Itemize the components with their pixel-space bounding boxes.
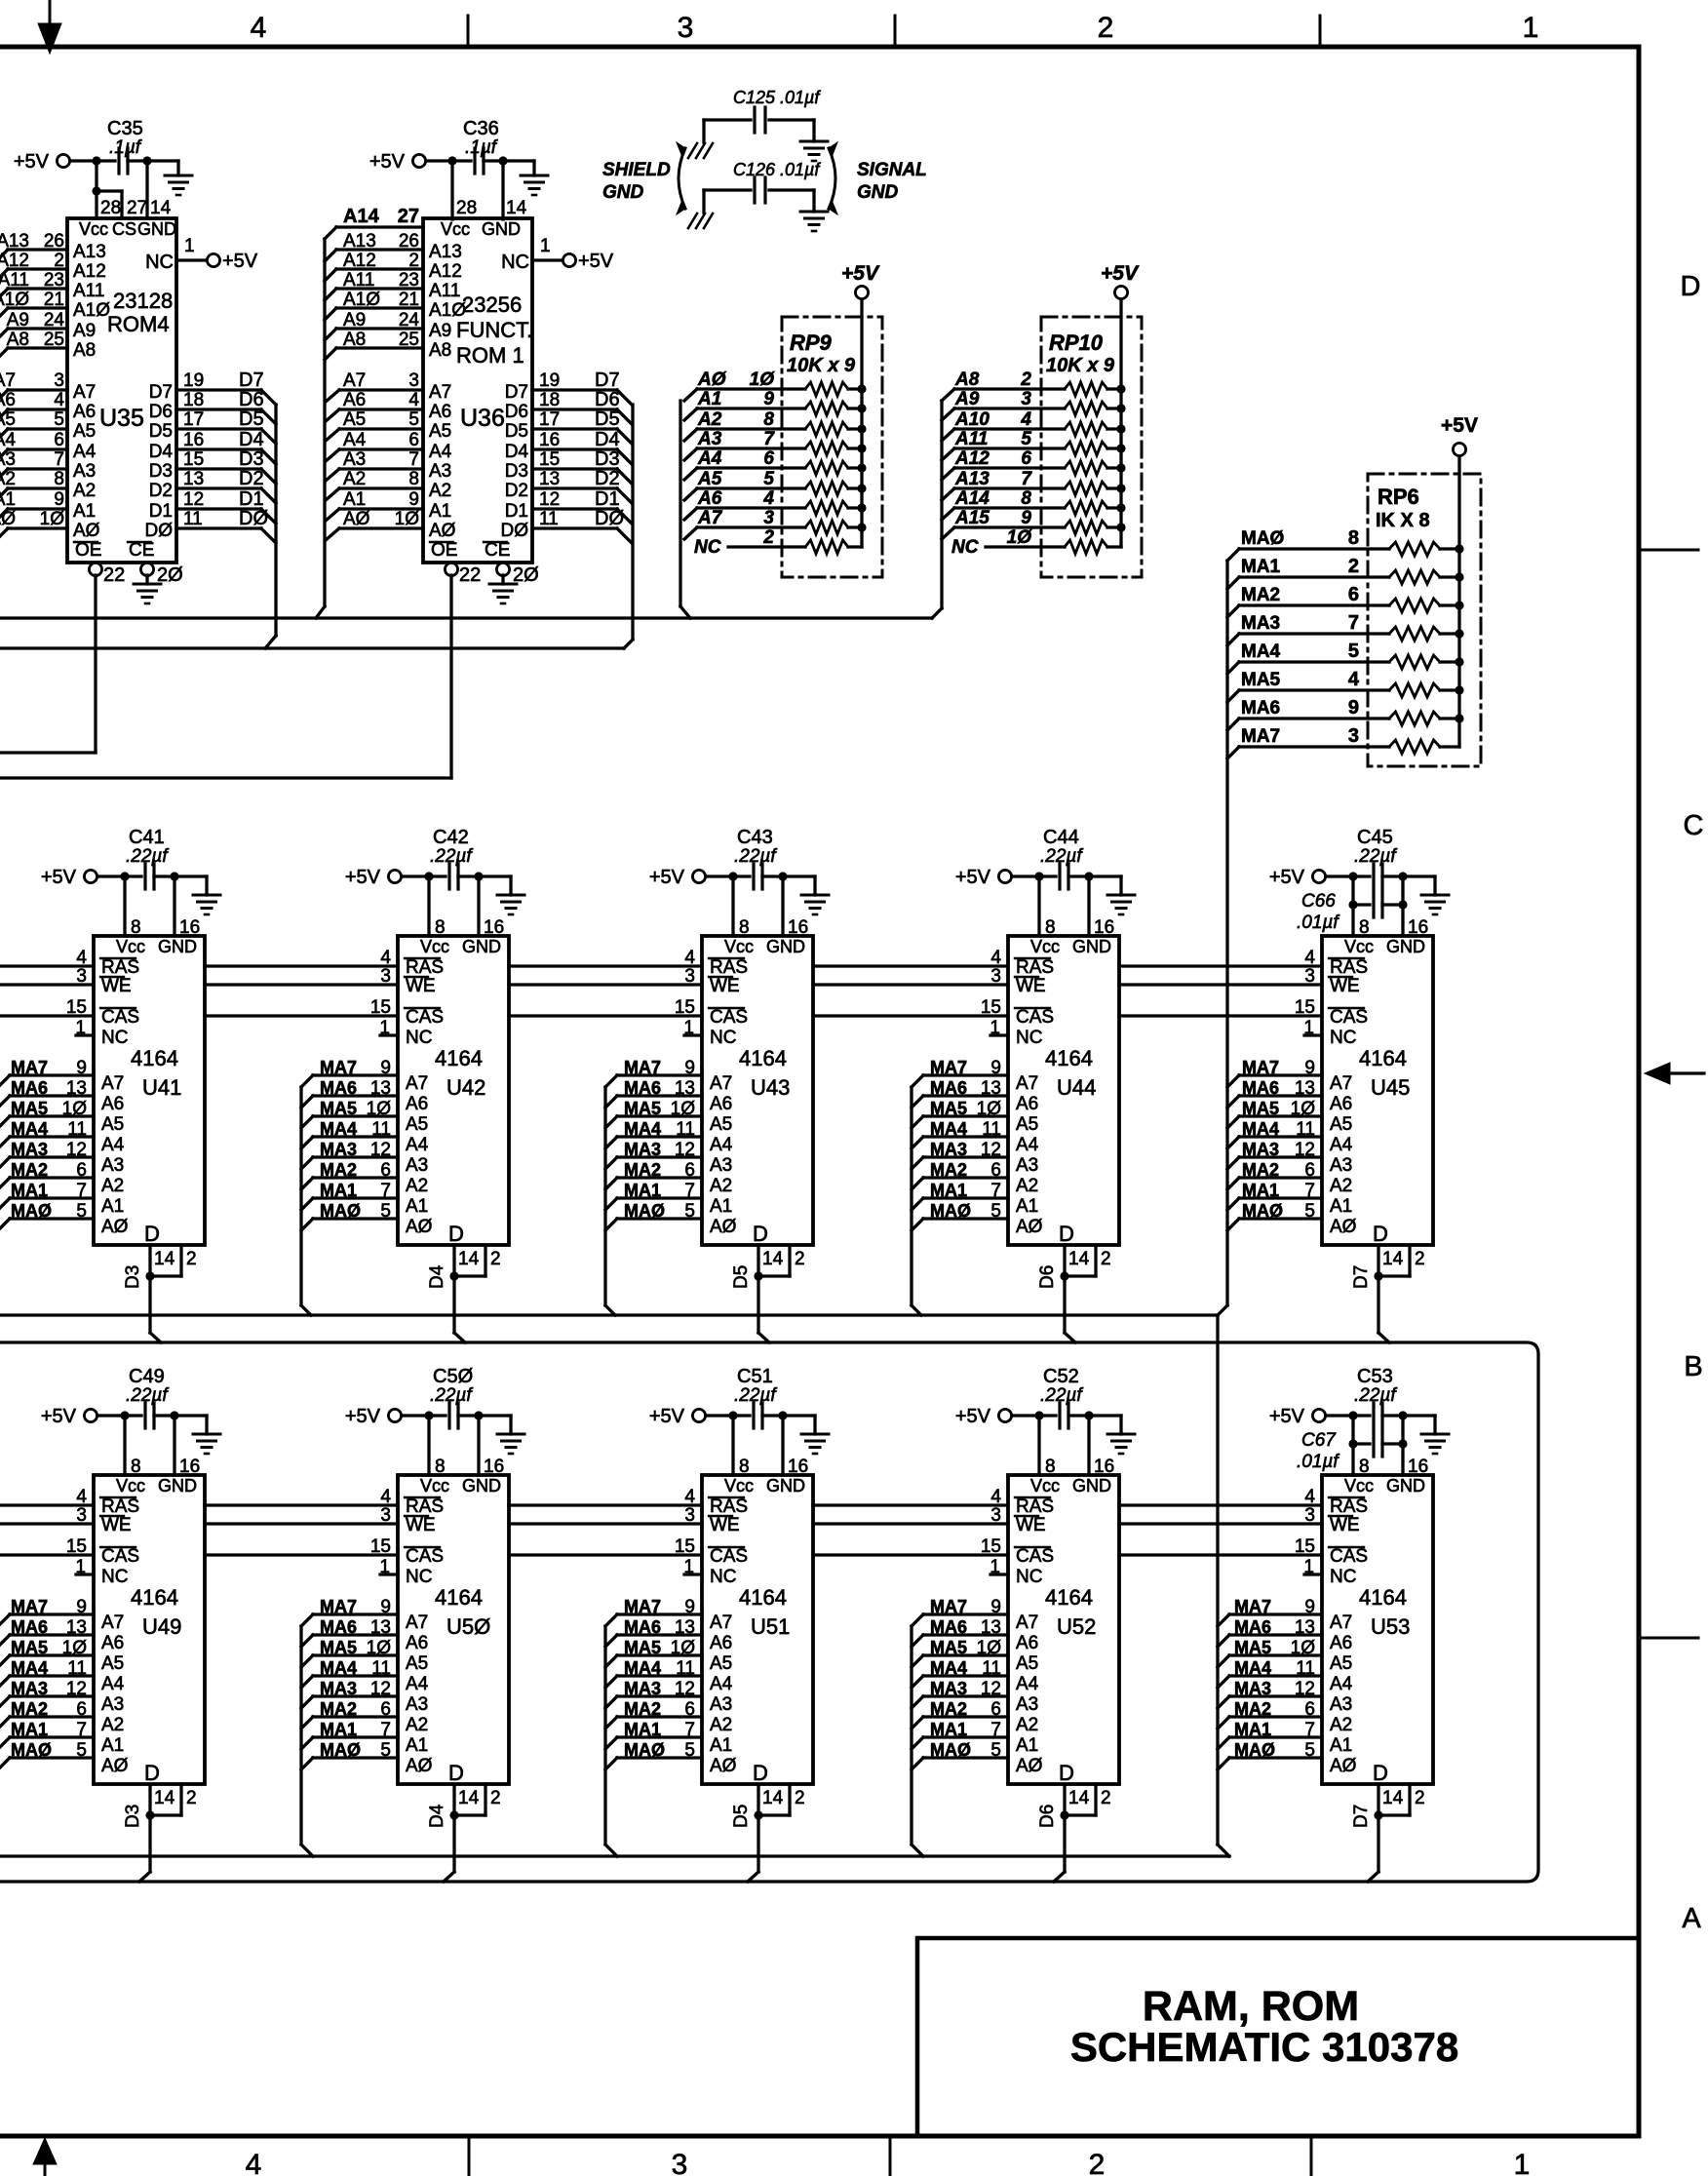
sheet border bottom edge xyxy=(0,2134,1639,2139)
svg-text:A6: A6 xyxy=(101,1633,124,1653)
ROM U35 body xyxy=(67,218,176,563)
svg-text:+5V: +5V xyxy=(955,1406,991,1427)
svg-text:A6: A6 xyxy=(1330,1633,1352,1653)
wire C42 to ground xyxy=(479,874,511,877)
left brace arrow xyxy=(679,148,685,209)
wire A2 to U35 pin 8 xyxy=(8,486,67,489)
svg-text:A3: A3 xyxy=(101,1155,124,1176)
DRAM U53 (4164) body xyxy=(1322,1475,1433,1784)
svg-text:8: 8 xyxy=(739,917,750,938)
ground at CE xyxy=(145,575,148,584)
svg-text:+5V: +5V xyxy=(222,251,258,272)
wire C44 to ground xyxy=(1089,874,1121,877)
svg-text:NC: NC xyxy=(406,1028,432,1048)
svg-text:C45: C45 xyxy=(1357,827,1393,848)
wire MA2 to U50 xyxy=(301,1717,313,1729)
DRAM U45 (4164) body xyxy=(1322,936,1433,1245)
svg-text:Vcc: Vcc xyxy=(724,937,754,956)
svg-text:12: 12 xyxy=(981,1140,1001,1160)
resistor RP9 element A7 pin 3 xyxy=(684,527,697,539)
svg-text:6: 6 xyxy=(1304,1160,1315,1181)
wire C53 to ground xyxy=(1403,1414,1435,1417)
ground (signal) top xyxy=(800,141,828,161)
DRAM U51 (4164) body xyxy=(702,1475,813,1784)
svg-text:C42: C42 xyxy=(433,827,469,848)
wire D3 to data bus xyxy=(148,1276,151,1333)
svg-text:A1: A1 xyxy=(0,489,16,510)
svg-text:MA4: MA4 xyxy=(320,1119,357,1139)
svg-text:6: 6 xyxy=(1348,584,1359,605)
MA bus riser to U53 xyxy=(1216,1315,1219,1845)
wire MA5 to U50 xyxy=(301,1655,313,1667)
svg-text:24: 24 xyxy=(399,310,420,330)
svg-text:A10: A10 xyxy=(954,409,990,430)
svg-text:2: 2 xyxy=(795,1788,805,1808)
svg-text:AØ: AØ xyxy=(406,1217,433,1237)
svg-text:MA6: MA6 xyxy=(1242,1078,1279,1098)
svg-text:A2: A2 xyxy=(101,1715,124,1735)
svg-text:.22µf: .22µf xyxy=(126,846,169,867)
wire MA3 to U51 xyxy=(605,1696,617,1708)
wire MA4 to U42 xyxy=(301,1137,313,1148)
svg-text:A6: A6 xyxy=(343,390,366,410)
svg-text:A13: A13 xyxy=(429,242,462,262)
svg-text:.01µf: .01µf xyxy=(1297,1452,1339,1472)
svg-text:1Ø: 1Ø xyxy=(62,1099,88,1119)
wire A1 to U35 pin 9 xyxy=(8,507,67,510)
svg-text:3: 3 xyxy=(672,2149,688,2176)
svg-text:MA3: MA3 xyxy=(930,1140,967,1159)
svg-text:MA2: MA2 xyxy=(320,1699,357,1719)
svg-text:MA5: MA5 xyxy=(1242,1099,1279,1118)
svg-text:A5: A5 xyxy=(101,1114,124,1135)
wire MA&#216; to U53 xyxy=(1218,1758,1229,1769)
svg-text:7: 7 xyxy=(1304,1181,1315,1201)
wire A8 to U36 pin 25 xyxy=(336,346,423,349)
svg-text:A1: A1 xyxy=(73,501,96,522)
svg-text:A2: A2 xyxy=(710,1176,732,1196)
wire A&#216; to U35 pin 1&#216; xyxy=(8,526,67,529)
svg-text:A4: A4 xyxy=(73,442,97,462)
svg-text:2: 2 xyxy=(1098,12,1114,44)
svg-text:1Ø: 1Ø xyxy=(62,1638,88,1658)
svg-text:12: 12 xyxy=(539,489,560,510)
resistor pack RP9 (10K x 9) xyxy=(782,317,882,577)
svg-text:NC: NC xyxy=(101,1567,128,1587)
svg-text:13: 13 xyxy=(183,469,204,489)
svg-text:2: 2 xyxy=(762,527,774,548)
wire D&#216; from U36 pin 11 xyxy=(532,526,617,529)
svg-text:2: 2 xyxy=(186,1788,197,1808)
svg-text:12: 12 xyxy=(66,1679,87,1699)
svg-text:A4: A4 xyxy=(1330,1674,1353,1694)
wire MA1 to U50 xyxy=(301,1737,313,1749)
U44 pin 16 GND stub xyxy=(1087,876,1090,936)
wire MA&#216; to U52 xyxy=(912,1758,923,1769)
svg-text:GND: GND xyxy=(1072,937,1111,956)
svg-text:D4: D4 xyxy=(149,442,174,462)
WE bus (middle row) xyxy=(0,983,94,986)
svg-text:A2: A2 xyxy=(406,1715,428,1735)
wire D6 to bottom data bus xyxy=(1063,1815,1066,1872)
svg-text:D6: D6 xyxy=(1037,1805,1058,1828)
capacitor C42 .22uf xyxy=(447,864,450,889)
svg-text:MA7: MA7 xyxy=(930,1597,967,1616)
svg-text:GND: GND xyxy=(158,937,197,956)
svg-text:5: 5 xyxy=(1304,1201,1315,1222)
wire MA2 to U51 xyxy=(605,1717,617,1729)
resistor RP10 element A9 pin 3 xyxy=(942,408,954,420)
svg-text:4: 4 xyxy=(246,2149,262,2176)
svg-text:GND: GND xyxy=(462,937,501,956)
svg-text:D: D xyxy=(144,1761,160,1785)
wire MA7 to U45 xyxy=(1227,1075,1239,1087)
wire +5V to C35 xyxy=(70,159,115,162)
svg-text:+5V: +5V xyxy=(345,867,381,888)
svg-text:9: 9 xyxy=(380,1597,391,1617)
svg-text:MA3: MA3 xyxy=(320,1679,357,1698)
svg-text:MAØ: MAØ xyxy=(930,1201,971,1221)
svg-text:22: 22 xyxy=(103,564,125,586)
svg-text:4: 4 xyxy=(54,390,64,410)
svg-text:10K x 9: 10K x 9 xyxy=(1046,355,1115,376)
svg-text:AØ: AØ xyxy=(343,509,370,529)
wire D4 to data bus xyxy=(452,1276,455,1333)
U42 NC pin 1 stub xyxy=(380,1033,398,1036)
svg-text:NC: NC xyxy=(694,537,721,558)
svg-text:11: 11 xyxy=(371,1658,391,1679)
wire MA6 to U51 xyxy=(605,1635,617,1647)
svg-text:4: 4 xyxy=(762,488,774,509)
svg-text:14: 14 xyxy=(762,1788,784,1808)
wire MA&#216; to U51 xyxy=(605,1758,617,1769)
svg-text:A9: A9 xyxy=(429,321,451,341)
wire C43 to ground xyxy=(783,874,815,877)
svg-text:D2: D2 xyxy=(239,468,264,489)
wire A1&#216; to U36 pin 21 xyxy=(336,306,423,309)
svg-text:5: 5 xyxy=(1304,1740,1315,1761)
svg-text:16: 16 xyxy=(539,430,560,450)
svg-text:A7: A7 xyxy=(1016,1613,1038,1633)
svg-text:MA6: MA6 xyxy=(320,1078,357,1098)
svg-text:A6: A6 xyxy=(710,1094,732,1114)
svg-text:DØ: DØ xyxy=(501,521,529,541)
U52 pin 16 GND stub xyxy=(1087,1416,1090,1475)
capacitor C35 .1uf xyxy=(117,148,120,174)
svg-text:MA1: MA1 xyxy=(930,1181,967,1200)
svg-text:1Ø: 1Ø xyxy=(977,1638,1002,1658)
svg-text:A3: A3 xyxy=(343,449,366,470)
svg-text:MA5: MA5 xyxy=(930,1638,967,1657)
svg-text:3: 3 xyxy=(678,12,694,44)
ground at C42 xyxy=(497,895,524,914)
svg-text:Vcc: Vcc xyxy=(79,219,108,239)
svg-text:MA7: MA7 xyxy=(930,1058,967,1077)
svg-text:D: D xyxy=(753,1222,768,1246)
svg-text:AØ: AØ xyxy=(0,509,16,529)
svg-text:MAØ: MAØ xyxy=(320,1201,361,1221)
svg-text:MA2: MA2 xyxy=(11,1699,48,1719)
svg-text:2: 2 xyxy=(1101,1249,1111,1269)
ground at CE xyxy=(501,575,504,584)
wire D4 from U35 pin 16 xyxy=(176,447,261,450)
wire MA4 to U41 xyxy=(10,1135,94,1138)
svg-text:D5: D5 xyxy=(731,1265,752,1289)
svg-text:D3: D3 xyxy=(505,461,528,482)
svg-text:6: 6 xyxy=(1304,1699,1315,1720)
resistor RP9 element A4 pin 6 xyxy=(684,468,697,480)
svg-text:A12: A12 xyxy=(73,261,106,282)
chassis ground (shield) top xyxy=(688,143,713,158)
svg-text:MA7: MA7 xyxy=(1242,1058,1279,1077)
svg-text:AØ: AØ xyxy=(710,1756,737,1776)
svg-text:5: 5 xyxy=(76,1740,87,1761)
U35 data bus riser xyxy=(274,405,277,636)
svg-text:9: 9 xyxy=(990,1058,1001,1078)
wire MA3 to U49 xyxy=(10,1694,94,1697)
svg-text:16: 16 xyxy=(484,1457,504,1477)
svg-text:A6: A6 xyxy=(1330,1094,1352,1114)
svg-text:A7: A7 xyxy=(406,1613,428,1633)
capacitor C53 .22uf xyxy=(1372,1403,1375,1428)
svg-text:A9: A9 xyxy=(7,310,29,330)
svg-text:A7: A7 xyxy=(710,1073,732,1094)
svg-text:MA4: MA4 xyxy=(1242,1119,1279,1139)
svg-text:C126 .01µf: C126 .01µf xyxy=(733,160,821,179)
MA bundle riser for U51 xyxy=(603,1626,606,1845)
svg-text:.22µf: .22µf xyxy=(430,846,473,867)
svg-text:WE: WE xyxy=(1016,976,1046,996)
wire MA1 to U41 xyxy=(10,1196,94,1199)
svg-text:6: 6 xyxy=(408,430,419,450)
svg-text:WE: WE xyxy=(710,1515,740,1535)
svg-text:A6: A6 xyxy=(1016,1633,1038,1653)
svg-text:1Ø: 1Ø xyxy=(395,509,420,529)
svg-text:11: 11 xyxy=(982,1658,1001,1679)
ground at C49 xyxy=(193,1434,220,1454)
wire A3 to U36 pin 7 xyxy=(339,467,423,470)
svg-text:6: 6 xyxy=(684,1160,695,1181)
wire C45 to ground xyxy=(1403,874,1435,877)
capacitor C43 .22uf xyxy=(752,864,755,889)
svg-text:7: 7 xyxy=(1304,1720,1315,1740)
svg-text:1Ø: 1Ø xyxy=(367,1638,392,1658)
svg-text:A7: A7 xyxy=(1330,1073,1352,1094)
svg-text:A6: A6 xyxy=(406,1633,428,1653)
svg-text:4164: 4164 xyxy=(1045,1046,1093,1070)
wire D5 from U35 pin 17 xyxy=(176,427,261,430)
resistor RP10 element A13 pin 7 xyxy=(942,488,954,500)
svg-text:U41: U41 xyxy=(142,1075,181,1100)
svg-text:.22µf: .22µf xyxy=(1354,846,1397,867)
svg-text:MA2: MA2 xyxy=(930,1699,967,1719)
svg-text:23256: 23256 xyxy=(462,292,522,317)
svg-text:D7: D7 xyxy=(1351,1265,1372,1289)
wire MA1 to U53 xyxy=(1218,1737,1229,1749)
wire MA7 to U43 xyxy=(605,1075,617,1087)
data bus loop (middle to bottom) xyxy=(0,1342,1538,1882)
svg-text:1Ø: 1Ø xyxy=(1291,1638,1316,1658)
address bus line (to RP10) xyxy=(0,616,932,619)
svg-text:8: 8 xyxy=(763,409,774,430)
svg-text:1: 1 xyxy=(540,236,551,256)
svg-text:D3: D3 xyxy=(149,461,173,482)
svg-text:8: 8 xyxy=(408,469,419,489)
svg-text:13: 13 xyxy=(539,469,560,489)
DRAM U42 (4164) body xyxy=(398,936,509,1245)
svg-text:16: 16 xyxy=(788,1457,808,1477)
svg-text:12: 12 xyxy=(1295,1140,1315,1160)
ground at C45 xyxy=(1421,895,1449,914)
wire ground to U35 pin 14 GND xyxy=(145,161,148,218)
svg-text:12: 12 xyxy=(183,489,204,510)
svg-text:5: 5 xyxy=(684,1740,695,1761)
right zone tick D|C xyxy=(1642,549,1698,552)
svg-text:+5V: +5V xyxy=(1101,262,1140,285)
svg-text:1: 1 xyxy=(683,1018,694,1038)
wire MA7 to U51 xyxy=(605,1614,617,1626)
svg-text:D: D xyxy=(1059,1761,1074,1785)
svg-text:.1µf: .1µf xyxy=(465,137,498,158)
wire +5V to C36 xyxy=(426,159,471,162)
svg-text:A11: A11 xyxy=(429,281,460,301)
svg-text:23: 23 xyxy=(44,270,64,291)
resistor RP6 element MA7 pin 3 xyxy=(1227,747,1239,758)
svg-text:WE: WE xyxy=(710,976,740,996)
svg-text:.1µf: .1µf xyxy=(109,137,142,158)
svg-text:1: 1 xyxy=(75,1018,86,1038)
svg-text:CAS: CAS xyxy=(1016,1007,1054,1028)
svg-text:+5V: +5V xyxy=(955,867,991,888)
svg-text:A6: A6 xyxy=(0,390,16,410)
svg-text:14: 14 xyxy=(458,1788,480,1808)
svg-text:A4: A4 xyxy=(406,1135,429,1155)
svg-text:9: 9 xyxy=(684,1597,695,1617)
MA bus (middle) xyxy=(0,1313,1218,1316)
svg-text:D3: D3 xyxy=(123,1265,143,1289)
wire MA1 to U52 xyxy=(912,1737,923,1749)
svg-text:MA2: MA2 xyxy=(1234,1699,1271,1719)
svg-text:9: 9 xyxy=(684,1058,695,1078)
svg-text:7: 7 xyxy=(684,1720,695,1740)
svg-text:A3: A3 xyxy=(1330,1694,1352,1715)
svg-text:MA3: MA3 xyxy=(11,1679,48,1698)
svg-text:MA6: MA6 xyxy=(1234,1617,1271,1637)
wire MA6 to U44 xyxy=(912,1096,923,1107)
svg-text:A7: A7 xyxy=(101,1073,124,1094)
svg-text:4164: 4164 xyxy=(1359,1046,1407,1070)
svg-text:1: 1 xyxy=(990,1557,1000,1577)
svg-text:2: 2 xyxy=(1415,1249,1425,1269)
svg-text:11: 11 xyxy=(183,509,203,529)
svg-text:+5V: +5V xyxy=(14,151,50,173)
wire D5 to bottom data bus xyxy=(757,1815,759,1872)
svg-text:8: 8 xyxy=(435,1457,446,1477)
svg-text:A7: A7 xyxy=(73,382,96,403)
svg-text:A15: A15 xyxy=(954,508,990,528)
svg-text:5: 5 xyxy=(54,409,64,430)
svg-text:NC: NC xyxy=(710,1567,736,1587)
svg-text:A4: A4 xyxy=(101,1135,125,1155)
MA bundle riser for U50 xyxy=(299,1626,302,1845)
svg-text:U35: U35 xyxy=(99,405,144,432)
U41 NC pin 1 stub xyxy=(76,1033,94,1036)
svg-text:ROM4: ROM4 xyxy=(107,312,170,336)
svg-text:CAS: CAS xyxy=(710,1007,748,1028)
svg-text:12: 12 xyxy=(66,1140,87,1160)
wire A3 to U35 pin 7 xyxy=(8,467,67,470)
wire D6 from U36 pin 18 xyxy=(532,408,617,410)
svg-text:RAS: RAS xyxy=(1330,957,1368,978)
resistor RP9 element A1 pin 9 xyxy=(684,408,697,420)
svg-text:MA3: MA3 xyxy=(11,1140,48,1159)
svg-text:NC: NC xyxy=(1330,1028,1356,1048)
svg-text:27: 27 xyxy=(398,206,419,227)
svg-text:MA5: MA5 xyxy=(1234,1638,1271,1657)
wire A2 to U36 pin 8 xyxy=(339,486,423,489)
svg-text:+5V: +5V xyxy=(1269,1406,1305,1427)
svg-text:A5: A5 xyxy=(697,469,722,489)
wire MA1 to U42 xyxy=(301,1198,313,1210)
svg-text:C51: C51 xyxy=(737,1366,773,1387)
RP10 bundle riser xyxy=(940,401,943,608)
svg-text:A2: A2 xyxy=(73,481,96,501)
svg-text:MA1: MA1 xyxy=(624,1181,661,1200)
U5&#216; NC pin 1 stub xyxy=(380,1573,398,1575)
wire A11 to U36 pin 23 xyxy=(336,287,423,290)
svg-text:A1: A1 xyxy=(1016,1196,1038,1217)
svg-text:9: 9 xyxy=(380,1058,391,1078)
svg-text:A2: A2 xyxy=(343,469,366,489)
svg-text:GND: GND xyxy=(482,219,521,239)
svg-text:A13: A13 xyxy=(343,231,376,252)
svg-text:D5: D5 xyxy=(239,408,264,430)
svg-text:A1Ø: A1Ø xyxy=(73,300,110,321)
svg-text:D: D xyxy=(1373,1222,1388,1246)
ROM U36 body xyxy=(423,218,532,563)
svg-text:A4: A4 xyxy=(1016,1674,1039,1694)
svg-text:CS: CS xyxy=(112,219,136,239)
capacitor C36 .1uf xyxy=(473,148,476,174)
ground at C52 xyxy=(1107,1434,1135,1454)
svg-text:CAS: CAS xyxy=(101,1546,139,1567)
svg-text:16: 16 xyxy=(183,430,204,450)
capacitor C66 .01uf xyxy=(1348,900,1357,909)
svg-text:7: 7 xyxy=(380,1720,391,1740)
svg-text:.22µf: .22µf xyxy=(430,1385,473,1406)
wire A14 to U36 pin 27 xyxy=(336,225,423,228)
svg-text:Vcc: Vcc xyxy=(420,1476,449,1496)
wire C51 to ground xyxy=(783,1414,815,1417)
ground at C53 xyxy=(1421,1434,1449,1454)
svg-text:WE: WE xyxy=(1330,1515,1360,1535)
svg-text:Vcc: Vcc xyxy=(116,937,145,956)
svg-text:.22µf: .22µf xyxy=(734,1385,777,1406)
wire MA4 to U49 xyxy=(10,1674,94,1677)
svg-text:11: 11 xyxy=(67,1658,87,1679)
svg-text:A3: A3 xyxy=(101,1694,124,1715)
svg-text:7: 7 xyxy=(1348,612,1359,634)
wire MA&#216; to U41 xyxy=(10,1217,94,1220)
wire MA6 to U52 xyxy=(912,1635,923,1647)
resistor RP6 element MA1 pin 2 xyxy=(1227,577,1239,589)
U53 pin 16 GND stub xyxy=(1401,1416,1404,1475)
svg-text:A3: A3 xyxy=(710,1694,732,1715)
svg-text:A6: A6 xyxy=(101,1094,124,1114)
svg-text:RAS: RAS xyxy=(406,1496,444,1517)
capacitor C49 .22uf xyxy=(143,1403,146,1428)
svg-text:5: 5 xyxy=(1348,641,1359,662)
